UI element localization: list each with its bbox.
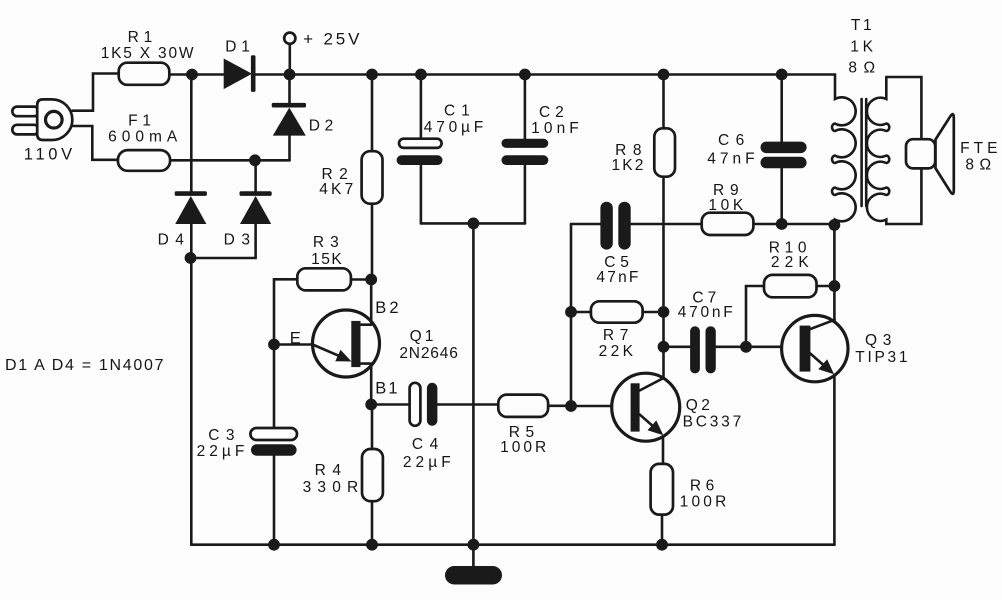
node rail R2 [366,69,378,81]
wire C1 bottom lead [420,165,423,224]
Q3 base bar [800,326,811,372]
node B1/C4/R4 [365,399,377,411]
wire Q3 emitter diagonal [809,353,828,370]
wire C2 bottom lead [524,165,527,224]
svg-text:C1: C1 [444,103,476,120]
wire Q3 base lead [746,345,782,348]
node C7 left collector [658,341,670,353]
wire ground lead [472,545,475,566]
Q2 emitter arrow [648,420,664,435]
resistor R9 [702,213,754,235]
diode D1 cathode bar [251,55,256,92]
speaker FTE cone [936,114,954,194]
resistor R4 [362,449,383,501]
wire C6 bottom lead [780,168,783,224]
node C7/R10/Q3 base [740,341,752,353]
wire D3 cathode lead [254,160,257,191]
resistor R2 [362,151,383,204]
wire Q2 base lead [571,405,612,408]
svg-text:C4: C4 [412,436,445,453]
svg-text:1K5 X 30W: 1K5 X 30W [101,45,196,62]
wire bottom negative rail [191,543,834,546]
wire +25V top rail [256,73,836,76]
plug 110V body [37,99,72,140]
svg-text:22µF: 22µF [197,443,249,460]
svg-text:BC337: BC337 [683,414,744,431]
wire plug bottom to F1 [73,126,118,160]
svg-text:470nF: 470nF [678,304,736,321]
wire F1 to D2 anode [170,159,289,162]
wire R10 right lead [817,285,835,288]
svg-text:330R: 330R [303,479,365,496]
svg-text:Q3: Q3 [865,332,897,349]
diode D2 cathode bar [272,103,306,108]
svg-text:D4: D4 [158,232,191,249]
capacitor C5 left plate [600,202,612,250]
capacitor C2 bottom plate [502,155,549,165]
node T1 primary bottom [829,219,841,231]
wire R8 bottom to Q2 collector [662,177,665,379]
node R7 right collector [658,306,670,318]
svg-text:22K: 22K [771,254,814,271]
resistor R6 [651,464,673,515]
svg-text:B1: B1 [375,380,399,398]
diode D2 triangle [273,108,306,136]
svg-text:1K: 1K [850,39,877,56]
svg-text:D2: D2 [309,118,338,135]
wire node column x571 [570,224,573,406]
Q2 base bar [631,383,640,431]
svg-text:C3: C3 [208,427,241,444]
wire C7 left lead [664,345,691,348]
svg-text:FTE: FTE [960,140,1001,157]
svg-text:Q2: Q2 [686,397,714,414]
wire C4 to R5 [437,403,498,406]
Q1 base bar [351,321,360,367]
svg-text:TIP31: TIP31 [855,349,910,366]
svg-text:R3: R3 [313,234,345,251]
node rail ground [468,539,480,551]
svg-text:D1 A D4 = 1N4007: D1 A D4 = 1N4007 [5,357,165,374]
diode D1 triangle [224,59,252,90]
diode D3 triangle [240,196,271,224]
svg-text:R7: R7 [603,327,634,344]
wire R3 left to node E column [274,279,297,428]
wire +25V terminal lead [288,44,291,75]
capacitor C4 right plate [427,383,438,426]
svg-text:10nF: 10nF [531,120,583,137]
wire R5 right lead [548,404,571,407]
node rail C6 [776,69,788,81]
svg-text:R1: R1 [128,29,157,46]
terminal +25V [284,33,295,44]
wire R7 left lead [571,311,591,314]
svg-text:100R: 100R [500,439,549,456]
wire R8 top lead [662,75,665,129]
svg-text:Q1: Q1 [410,328,437,345]
wire D2 anode lead [288,136,291,161]
wire C1 C2 bottom link [421,222,525,225]
svg-text:8Ω: 8Ω [848,60,881,77]
wire filter ground column [472,223,475,544]
svg-text:47nF: 47nF [596,269,640,286]
svg-text:15K: 15K [311,251,343,268]
node rail C1 [415,69,427,81]
svg-text:R6: R6 [690,478,719,495]
wire Q3 collector diagonal [809,320,835,330]
capacitor C7 left plate [690,326,700,373]
unijunction transistor Q1 circle [313,310,380,377]
wire Q2 emitter vertical [662,437,665,464]
node R3/E/C3 [268,339,280,351]
wire Q2 emitter diagonal [640,415,658,431]
svg-text:F1: F1 [128,113,156,130]
svg-text:2N2646: 2N2646 [399,345,458,362]
node rail R8 [658,69,670,81]
capacitor C7 right plate [706,326,716,373]
svg-text:D1: D1 [225,39,254,56]
ground symbol [445,566,502,585]
wire C5 left lead [571,223,600,226]
resistor R10 [764,275,817,297]
wire C4 left lead [371,403,409,406]
svg-text:110V: 110V [24,146,76,164]
wire plug top to R1 [72,74,118,111]
wire D3 anode lead [191,224,256,258]
plug 110V prong top [12,107,39,117]
node F1/D3/D2 [249,154,261,166]
svg-text:600mA: 600mA [108,129,182,146]
capacitor C4 left plate [410,383,421,426]
node C6 bottom R9 [776,218,788,230]
svg-text:470µF: 470µF [424,119,487,136]
wire Q3 emitter vertical [833,376,836,545]
wire R2 bottom lead [371,204,374,280]
capacitor C2 top plate [502,139,549,148]
capacitor C3 top plate [250,428,297,440]
wire R4 bottom lead [371,501,374,545]
capacitor C3 bottom plate [251,444,297,456]
transistor Q2 circle [612,373,680,441]
svg-text:E: E [290,330,302,348]
svg-text:C6: C6 [718,132,751,149]
svg-text:4K7: 4K7 [319,181,356,198]
node rail C2 [519,69,531,81]
diode D3 cathode bar [240,191,272,196]
wire C3 bottom to rail [273,456,276,545]
resistor R5 [498,395,548,417]
plug 110V hole [46,111,63,128]
wire C7 right lead [716,345,746,348]
capacitor C6 top plate [761,142,807,154]
node R1/D1/D4 [186,69,198,81]
svg-text:+ 25V: + 25V [303,30,362,49]
svg-text:B2: B2 [375,299,401,317]
diode D4 cathode bar [175,191,207,196]
svg-text:47nF: 47nF [707,150,758,167]
wire C5 right to R9 [631,223,702,226]
wire T1 primary winding lead [832,75,856,225]
svg-text:22K: 22K [599,343,637,360]
svg-text:D3: D3 [224,232,257,249]
capacitor C6 bottom plate [761,157,807,169]
wire R6 bottom lead [661,515,664,545]
node rail R6 bottom [656,539,668,551]
speaker FTE driver square [906,139,935,168]
node R5/Q2 base [565,400,577,412]
svg-text:T1: T1 [851,17,875,34]
wire B1 lead [360,364,371,405]
wire D4 cathode lead [190,75,193,192]
wire secondary top to speaker [886,77,921,139]
wire R9 right to T1 [753,223,834,226]
node C5/R7 left [565,306,577,318]
svg-text:100R: 100R [680,494,730,511]
wire Q1 emitter diagonal [313,345,340,357]
wire Q3 collector vertical [833,225,836,320]
wire C1 top lead [420,75,423,139]
Q1 emitter arrow [335,350,351,362]
wire R1 to D1 anode [169,73,223,76]
fuse F1 [118,150,170,171]
wire T1 secondary winding lead [867,77,889,224]
wire emitter lead Q1 [274,343,313,346]
wire C6 top lead [780,75,783,142]
node rail C3 bottom [268,539,280,551]
capacitor C1 bottom plate [397,155,443,165]
svg-text:C2: C2 [539,104,569,121]
plug 110V prong bottom [12,125,39,135]
wire R10 left lead [746,286,764,347]
wire R3 right lead [351,278,371,281]
resistor R7 [591,301,643,322]
wire Q2 collector diagonal [640,378,664,390]
wire B2 lead [360,280,371,325]
wire secondary bottom to speaker [886,168,921,224]
svg-text:R4: R4 [315,462,348,479]
wire R2 top lead [371,75,374,152]
transformer T1 core [862,99,867,206]
resistor R3 [297,268,351,290]
wire R7 right lead [643,311,664,314]
wire D4 anode lead [190,224,193,258]
node D4/D3 anodes [185,252,197,264]
wire D2 cathode lead [288,75,291,103]
node +25V/D1/D2 [284,69,296,81]
node C1/C2 bottom [468,218,480,230]
svg-text:1K2: 1K2 [612,157,646,174]
Q3 emitter arrow [818,359,834,374]
wire C2 top lead [524,75,527,139]
svg-text:10K: 10K [708,197,746,214]
resistor R1 [119,63,170,85]
capacitor C1 top plate [399,139,442,148]
wire left negative rail [190,258,193,545]
diode D4 triangle [175,196,206,224]
svg-text:8Ω: 8Ω [965,157,996,174]
node rail R4 bottom [366,539,378,551]
svg-text:22µF: 22µF [403,454,455,471]
node R10 right Q3 collector [829,280,841,292]
resistor R8 [654,128,675,176]
node R2/R3/B2 [365,274,377,286]
wire R4 top lead [371,405,374,450]
transistor Q3 circle [782,315,848,381]
capacitor C5 right plate [618,202,630,250]
